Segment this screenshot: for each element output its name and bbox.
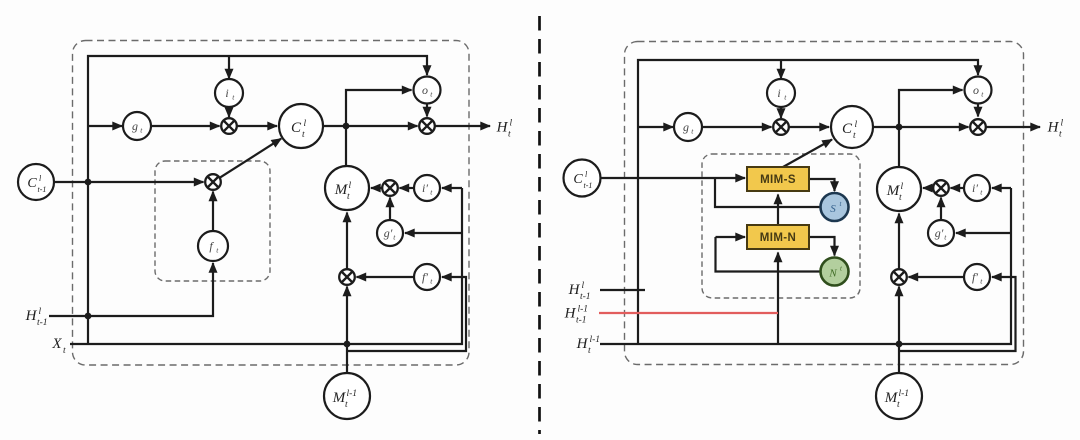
svg-text:H: H xyxy=(564,306,577,322)
svg-text:t: t xyxy=(508,130,511,140)
svg-text:o: o xyxy=(422,83,428,97)
svg-text:l: l xyxy=(304,119,307,129)
svg-text:C: C xyxy=(842,121,853,137)
svg-text:i′: i′ xyxy=(972,181,978,195)
svg-text:t: t xyxy=(63,346,66,356)
svg-text:g′: g′ xyxy=(935,226,944,240)
svg-text:t-1: t-1 xyxy=(576,316,587,326)
svg-text:MIM-N: MIM-N xyxy=(760,232,797,244)
svg-text:S: S xyxy=(830,203,836,215)
svg-text:g: g xyxy=(683,120,689,134)
svg-text:f′: f′ xyxy=(972,270,978,284)
svg-text:t-1: t-1 xyxy=(580,292,591,302)
svg-text:t: t xyxy=(347,192,350,202)
svg-text:C: C xyxy=(573,172,583,187)
svg-text:i′: i′ xyxy=(422,181,428,195)
svg-text:H: H xyxy=(568,282,581,298)
svg-text:f′: f′ xyxy=(422,270,428,284)
svg-text:g′: g′ xyxy=(384,226,393,240)
svg-text:l-1: l-1 xyxy=(590,335,601,345)
svg-text:l: l xyxy=(39,307,42,317)
svg-text:l: l xyxy=(582,281,585,291)
svg-text:t: t xyxy=(302,130,305,140)
svg-text:t: t xyxy=(853,131,856,141)
svg-text:t-1: t-1 xyxy=(38,185,47,194)
svg-text:t: t xyxy=(1059,130,1062,140)
svg-text:t: t xyxy=(588,346,591,356)
svg-text:o: o xyxy=(973,83,979,97)
svg-text:l: l xyxy=(1061,119,1064,129)
svg-text:H: H xyxy=(1047,120,1060,136)
svg-text:l-1: l-1 xyxy=(899,389,910,399)
svg-text:l: l xyxy=(901,182,904,192)
svg-text:t: t xyxy=(899,193,902,203)
svg-text:N: N xyxy=(828,268,837,280)
svg-text:l-1: l-1 xyxy=(347,389,358,399)
svg-text:C: C xyxy=(291,120,302,136)
svg-text:l-1: l-1 xyxy=(578,305,589,315)
svg-text:t: t xyxy=(897,400,900,410)
svg-text:t-1: t-1 xyxy=(37,318,48,328)
svg-text:H: H xyxy=(496,120,509,136)
svg-text:X: X xyxy=(51,336,62,352)
svg-text:i: i xyxy=(225,86,228,100)
svg-text:g: g xyxy=(132,119,138,133)
svg-text:l: l xyxy=(349,181,352,191)
svg-text:H: H xyxy=(25,308,38,324)
svg-text:l: l xyxy=(510,119,513,129)
svg-text:l: l xyxy=(855,120,858,130)
svg-text:t: t xyxy=(345,400,348,410)
svg-text:i: i xyxy=(777,86,780,100)
svg-text:C: C xyxy=(27,176,37,191)
svg-text:MIM-S: MIM-S xyxy=(760,174,796,186)
svg-text:t-1: t-1 xyxy=(584,181,593,190)
svg-text:H: H xyxy=(576,336,589,352)
